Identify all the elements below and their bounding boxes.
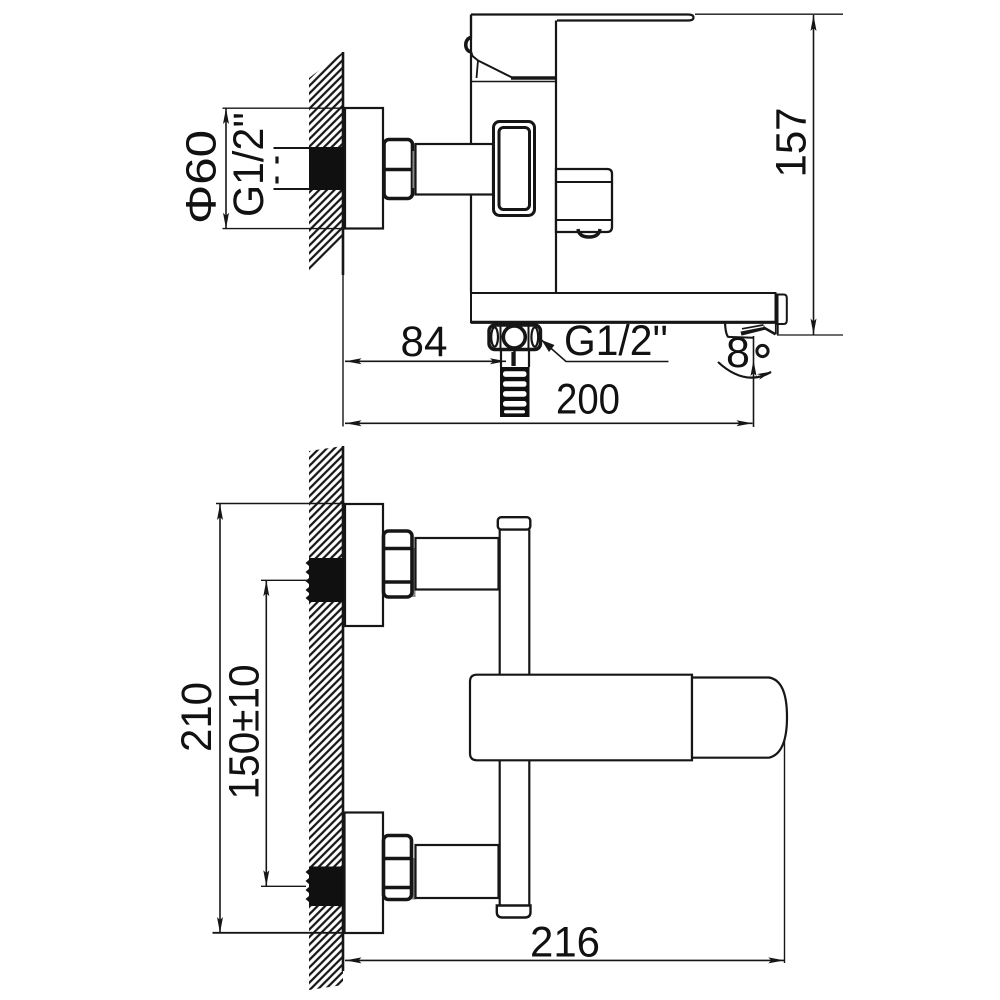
- washer upper (gray strip): [412, 548, 416, 597]
- corrugated shower hose: [500, 367, 530, 417]
- escutcheon plate upper (front view): [345, 504, 383, 626]
- extension lines for dim Φ60: [223, 108, 346, 228]
- dim text Φ60 (rotated): [177, 130, 225, 224]
- supply pipe stub (open end, side view): [274, 148, 311, 189]
- wall face line (side view): [342, 52, 345, 427]
- dimension line Φ60 with arrows: [223, 108, 229, 228]
- union nut (side view): [384, 140, 413, 199]
- dimension 210: [173, 504, 345, 934]
- connector pipe (side view): [416, 144, 494, 195]
- wall face line (front view): [342, 446, 345, 971]
- tilted foot pad: [725, 323, 778, 338]
- aerator outlet arc: [578, 229, 600, 237]
- spout end piece (front view): [692, 678, 787, 758]
- svg-text:157: 157: [767, 108, 815, 178]
- G1/2'' label with leader (hand shower union): [541, 317, 669, 365]
- dimension 84: [345, 318, 513, 366]
- wall hatch section (side view): [309, 52, 343, 271]
- shower hose connector: [501, 350, 529, 368]
- svg-text:G1/2'': G1/2'': [564, 317, 668, 365]
- escutcheon plate (side view): [345, 108, 383, 229]
- base plate (side view): [471, 293, 776, 324]
- threaded wall pipe upper (black, front view): [306, 558, 345, 602]
- hand shower union nut (view from below): [489, 325, 541, 350]
- dimension 150±10: [220, 580, 308, 886]
- body top cap (front view): [498, 517, 531, 529]
- dim text 8°: [726, 329, 768, 377]
- faucet body (side view): [471, 15, 556, 293]
- threaded wall pipe (black, side view): [309, 147, 345, 190]
- wall hatch section (front view): [309, 446, 343, 990]
- handle lever (side view): [466, 15, 694, 79]
- 8-degree dimension (line, arrow, arc): [718, 336, 772, 427]
- svg-text:210: 210: [173, 682, 221, 752]
- threaded wall pipe lower (black, front view): [306, 867, 345, 907]
- union nut lower (front view): [384, 836, 412, 900]
- svg-text:G1/2'': G1/2'': [225, 112, 273, 217]
- svg-text:Φ60: Φ60: [177, 130, 225, 224]
- svg-text:8: 8: [726, 329, 750, 377]
- connector pipe lower (front view): [416, 845, 499, 898]
- connector pipe upper (front view): [416, 538, 499, 590]
- washer lower (gray strip): [412, 858, 416, 900]
- spout stub (side view): [556, 169, 612, 232]
- spout arm (front view): [470, 675, 692, 761]
- G1/2 thread tick marks: [275, 157, 278, 184]
- body bottom cap (front view): [497, 906, 531, 918]
- dimension 157: [695, 14, 843, 335]
- dim text G1/2'' (rotated, at wall pipe): [225, 112, 273, 217]
- base plate end cap (side view): [778, 295, 787, 325]
- washer (gray strip, side view): [413, 151, 416, 188]
- svg-text:216: 216: [530, 919, 600, 967]
- union nut upper (front view): [384, 531, 413, 597]
- faucet body column (front view): [500, 530, 530, 906]
- cartridge ring (side view): [494, 122, 535, 216]
- escutcheon plate lower (front view): [345, 813, 384, 934]
- dimension 216: [345, 739, 785, 967]
- dimension 200: [345, 376, 753, 427]
- svg-text:200: 200: [556, 376, 620, 424]
- svg-text:84: 84: [401, 318, 448, 366]
- svg-text:150±10: 150±10: [220, 665, 268, 800]
